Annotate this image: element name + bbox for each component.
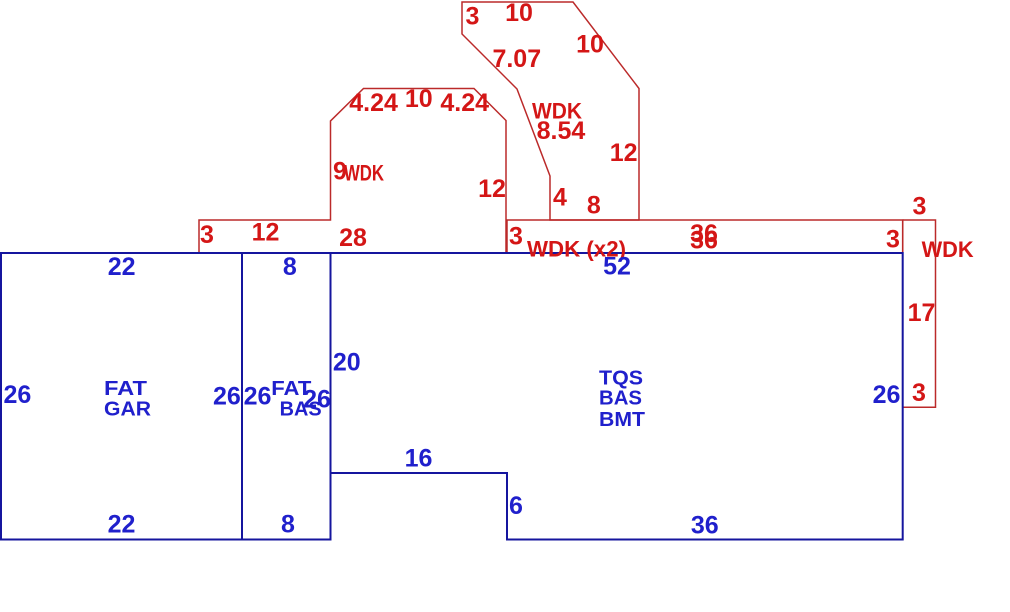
svg-text:3: 3: [200, 221, 214, 249]
deck WDK left (octagon) outline: [199, 89, 506, 254]
svg-text:6: 6: [509, 492, 523, 520]
svg-text:28: 28: [339, 224, 367, 252]
svg-text:12: 12: [610, 139, 638, 167]
svg-text:4.24: 4.24: [440, 89, 489, 117]
svg-text:36: 36: [691, 512, 719, 540]
svg-text:BMT: BMT: [599, 409, 645, 431]
svg-text:20: 20: [333, 349, 361, 377]
svg-text:4.24: 4.24: [349, 89, 398, 117]
svg-text:8.54: 8.54: [537, 117, 586, 145]
svg-text:3: 3: [886, 226, 900, 254]
svg-text:WDK: WDK: [344, 161, 384, 186]
svg-text:BAS: BAS: [599, 388, 642, 410]
deck WDK top (large) outline: [462, 2, 639, 220]
svg-text:7.07: 7.07: [492, 45, 541, 73]
svg-text:4: 4: [553, 184, 567, 212]
svg-text:16: 16: [405, 445, 433, 473]
deck WDK (x2) strip outline: [507, 220, 903, 253]
svg-text:26: 26: [244, 383, 272, 411]
room FAT BAS outline: [242, 253, 331, 540]
svg-text:8: 8: [587, 192, 601, 220]
svg-text:FAT: FAT: [104, 378, 147, 400]
svg-text:26: 26: [3, 381, 31, 409]
deck WDK right outline: [903, 220, 936, 407]
svg-text:3: 3: [913, 193, 927, 221]
svg-text:22: 22: [108, 253, 136, 281]
svg-text:22: 22: [108, 511, 136, 539]
svg-text:36: 36: [690, 227, 718, 255]
svg-text:10: 10: [405, 85, 433, 113]
svg-text:12: 12: [252, 218, 280, 246]
svg-text:26: 26: [873, 381, 901, 409]
svg-text:26: 26: [213, 383, 241, 411]
svg-text:52: 52: [603, 253, 631, 281]
room FAT GAR outline: [1, 253, 242, 540]
svg-text:17: 17: [908, 299, 936, 327]
svg-text:12: 12: [478, 175, 506, 203]
svg-text:26: 26: [303, 385, 331, 413]
svg-text:10: 10: [505, 0, 533, 27]
svg-text:10: 10: [576, 31, 604, 59]
svg-text:TQS: TQS: [599, 367, 643, 389]
svg-text:8: 8: [283, 253, 297, 281]
svg-text:GAR: GAR: [104, 399, 152, 421]
room TQS BAS BMT outline: [331, 253, 903, 540]
svg-text:3: 3: [912, 379, 926, 407]
svg-text:3: 3: [509, 222, 523, 250]
svg-text:3: 3: [466, 3, 480, 31]
svg-text:WDK: WDK: [922, 237, 974, 262]
svg-text:8: 8: [281, 511, 295, 539]
